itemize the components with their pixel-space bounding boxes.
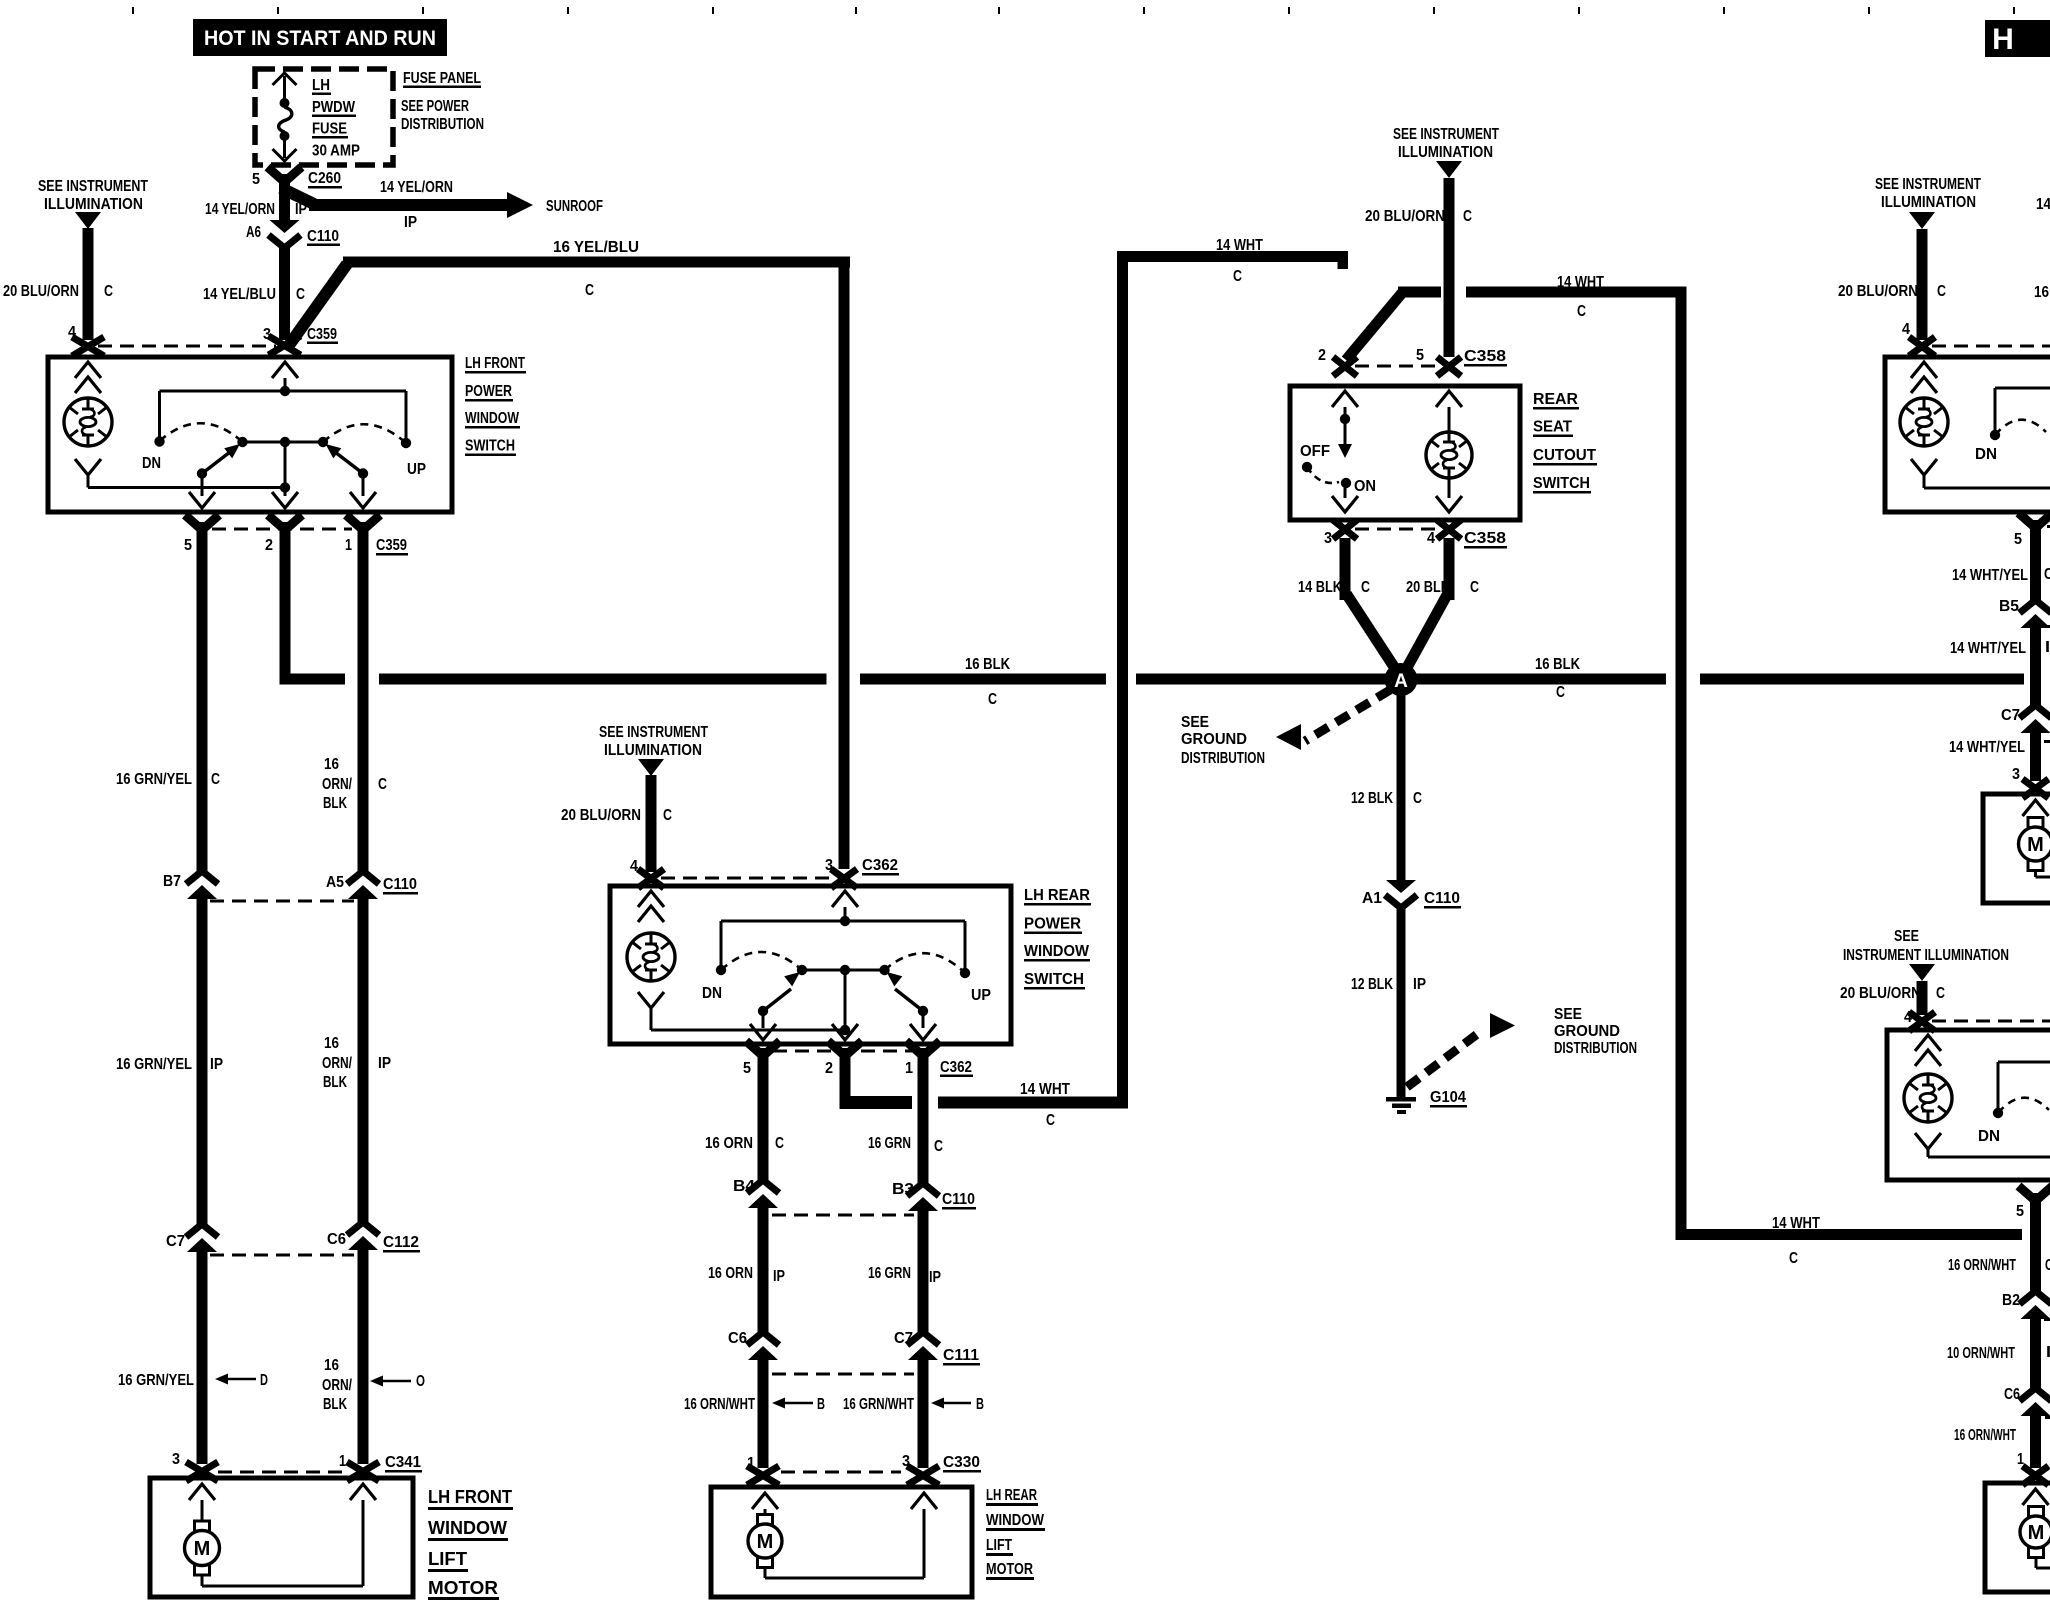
svg-text:14 WHT: 14 WHT bbox=[1216, 237, 1263, 254]
svg-text:C: C bbox=[775, 1135, 784, 1152]
svg-text:C: C bbox=[934, 1138, 943, 1155]
svg-text:C358: C358 bbox=[1464, 348, 1506, 365]
connector C341 pin 1 bbox=[339, 1453, 422, 1481]
label 16 ORN/BLK C (stacked) bbox=[322, 756, 387, 812]
label 16 ORN/BLK IP (stacked) bbox=[322, 1035, 391, 1091]
svg-text:C330: C330 bbox=[943, 1454, 980, 1471]
label 16 GRN/YEL IP bbox=[116, 1056, 223, 1073]
svg-text:C: C bbox=[296, 286, 305, 303]
svg-text:16 GRN/WHT: 16 GRN/WHT bbox=[843, 1396, 914, 1413]
switch arm left (LH rear) bbox=[763, 972, 800, 1011]
svg-text:LH REAR: LH REAR bbox=[1024, 887, 1090, 904]
svg-text:5: 5 bbox=[743, 1060, 751, 1077]
label 16 BLK C (right) bbox=[1535, 656, 1581, 701]
svg-text:SEE INSTRUMENT: SEE INSTRUMENT bbox=[38, 178, 148, 195]
label 16 ORN/WHT C (RH rear) bbox=[1948, 1257, 2050, 1274]
label 12 BLK C bbox=[1351, 790, 1422, 807]
svg-text:O: O bbox=[416, 1373, 425, 1390]
motor M (LH front window lift) bbox=[185, 1484, 377, 1586]
wire 14 WHT/YEL (C7 to pin3) bbox=[2030, 733, 2041, 781]
svg-text:C: C bbox=[2044, 566, 2050, 583]
svg-text:ORN/: ORN/ bbox=[322, 1377, 353, 1394]
svg-text:14 YEL/BLU: 14 YEL/BLU bbox=[203, 286, 276, 303]
label SEE GROUND DISTRIBUTION (lower) bbox=[1554, 1006, 1637, 1057]
svg-text:DN: DN bbox=[1975, 446, 1997, 463]
connector C330 pin 1 bbox=[747, 1455, 779, 1485]
wire lamp to pin 2 (LH rear) bbox=[651, 1025, 850, 1035]
svg-text:D: D bbox=[260, 1372, 268, 1389]
label 14 WHT C (upper left) bbox=[1216, 237, 1263, 285]
svg-text:B2: B2 bbox=[2002, 1292, 2020, 1309]
svg-text:DISTRIBUTION: DISTRIBUTION bbox=[401, 116, 484, 133]
svg-text:14 WHT: 14 WHT bbox=[1772, 1215, 1820, 1232]
svg-text:C6: C6 bbox=[2004, 1386, 2020, 1403]
connector C260 bbox=[268, 167, 343, 199]
title box HOT IN START AND RUN bbox=[193, 19, 447, 56]
label SEE GROUND DISTRIBUTION (upper) bbox=[1181, 714, 1265, 767]
RH rear window lift motor box bbox=[1985, 1483, 2050, 1592]
svg-text:16 GRN: 16 GRN bbox=[868, 1135, 911, 1152]
wire lamp line (RH rear) bbox=[1928, 1156, 2050, 1159]
label 12 BLK IP bbox=[1351, 976, 1426, 993]
svg-text:C110: C110 bbox=[307, 228, 339, 245]
label SEE INSTRUMENT ILLUMINATION (RH rear) bbox=[1843, 928, 2009, 964]
svg-text:LIFT: LIFT bbox=[986, 1537, 1012, 1554]
contact DN (RH front) bbox=[1975, 430, 2000, 463]
dashed arc DN (RH rear) bbox=[1998, 1098, 2049, 1113]
connector pin 3 (RH front motor) bbox=[2012, 766, 2049, 798]
svg-text:SEAT: SEAT bbox=[1533, 419, 1573, 436]
wire 16 GRN/WHT (C7 to motor) bbox=[918, 1360, 929, 1468]
svg-text:C359: C359 bbox=[307, 326, 337, 343]
svg-text:12 BLK: 12 BLK bbox=[1351, 790, 1394, 807]
switch arm left (LH front) bbox=[202, 444, 240, 474]
label 14 WHT/YEL C (RH upper) bbox=[1952, 566, 2050, 584]
label 20 BLU/ORN C (LH front) bbox=[3, 283, 113, 300]
illumination feed triangle (LH rear) bbox=[638, 759, 664, 776]
svg-text:SEE: SEE bbox=[1554, 1006, 1582, 1023]
svg-text:C6: C6 bbox=[728, 1330, 747, 1347]
rear seat cutout switch box bbox=[1290, 386, 1520, 520]
svg-text:BLK: BLK bbox=[323, 795, 348, 812]
svg-text:20 BLU/ORN: 20 BLU/ORN bbox=[1838, 283, 1918, 300]
svg-text:C: C bbox=[104, 283, 113, 300]
wire pin2 exit (LH front) bbox=[272, 442, 298, 508]
illumination feed triangle (cutout) bbox=[1436, 161, 1462, 178]
svg-text:IP: IP bbox=[378, 1055, 391, 1072]
label 16 ORN/BLK arrow O bbox=[322, 1357, 425, 1413]
svg-text:C: C bbox=[211, 771, 220, 788]
svg-text:ON: ON bbox=[1354, 478, 1376, 495]
label 14 WHT/YEL IP (RH) bbox=[1950, 639, 2050, 657]
wire 16 GRN/YEL (pin5 to B7) bbox=[197, 553, 208, 871]
svg-text:5: 5 bbox=[1416, 347, 1424, 364]
svg-text:FUSE: FUSE bbox=[312, 121, 347, 138]
connector C359 pin 2 (bottom) bbox=[265, 515, 302, 561]
connector pin 5 (RH rear bottom) bbox=[2016, 1186, 2050, 1232]
svg-text:16 ORN/WHT: 16 ORN/WHT bbox=[684, 1396, 755, 1413]
wire 16 GRN (pin1 to B3) bbox=[918, 1075, 929, 1183]
svg-text:SWITCH: SWITCH bbox=[1533, 475, 1590, 492]
wire 14 BLK (pin3 to node A) bbox=[1340, 538, 1399, 673]
dashed connector line C359 (bottom) bbox=[212, 528, 352, 531]
svg-text:C: C bbox=[1413, 790, 1422, 807]
wire pin2 to 16 BLK bbox=[280, 553, 291, 685]
svg-text:B: B bbox=[976, 1396, 984, 1413]
wire 16 ORN/BLK (pin1 to A5) bbox=[358, 553, 369, 871]
svg-text:LIFT: LIFT bbox=[428, 1548, 468, 1569]
dashed connector line (RH rear top) bbox=[1932, 1020, 2050, 1023]
label 14 BLK C bbox=[1298, 579, 1370, 596]
svg-text:H: H bbox=[1992, 23, 2014, 56]
svg-text:BLK: BLK bbox=[323, 1396, 348, 1413]
wire 16 GRN (B3 to C7) bbox=[918, 1211, 929, 1332]
connector C362 pin 5 (bottom) bbox=[743, 1041, 780, 1084]
wire pin5 exit (LH rear) bbox=[750, 1011, 776, 1040]
svg-text:14 WHT: 14 WHT bbox=[1557, 274, 1604, 291]
label SEE INSTRUMENT ILLUMINATION (RH front) bbox=[1875, 176, 1981, 211]
svg-text:C362: C362 bbox=[940, 1059, 972, 1076]
svg-text:C: C bbox=[1470, 579, 1479, 596]
dashed arc DN (LH front) bbox=[160, 423, 243, 442]
label SEE INSTRUMENT ILLUMINATION (LH front) bbox=[38, 178, 148, 213]
wire pin2 exit (LH rear) bbox=[832, 970, 858, 1040]
label 14 YEL/ORN IP (left of wire) bbox=[205, 201, 307, 218]
connector pin 1 (RH rear motor) bbox=[2017, 1451, 2049, 1485]
connector C359 pin 5 (bottom) bbox=[184, 515, 219, 561]
svg-text:A6: A6 bbox=[246, 224, 261, 241]
connector C358 pin 5 bbox=[1416, 347, 1507, 376]
svg-text:M: M bbox=[2028, 1522, 2045, 1544]
svg-text:GROUND: GROUND bbox=[1181, 731, 1247, 748]
svg-text:IP: IP bbox=[773, 1268, 785, 1285]
label SEE POWER DISTRIBUTION bbox=[401, 98, 484, 133]
wire pin3 exit (cutout) bbox=[1332, 487, 1358, 512]
svg-text:C112: C112 bbox=[383, 1234, 419, 1251]
svg-text:HOT IN START AND RUN: HOT IN START AND RUN bbox=[204, 27, 436, 50]
dashed arc DN (RH front) bbox=[1995, 420, 2046, 435]
svg-text:IP: IP bbox=[404, 214, 417, 231]
wire 20 BLU/ORN (LH rear illumination) bbox=[646, 775, 657, 872]
connector pin 4 (RH rear) bbox=[1904, 1009, 1935, 1031]
svg-text:IP: IP bbox=[929, 1269, 941, 1286]
RH front window lift motor box bbox=[1983, 794, 2050, 903]
wire 20 BLU/ORN (LH front illumination) bbox=[83, 228, 94, 340]
svg-text:BLK: BLK bbox=[323, 1074, 348, 1091]
wire 16 ORN (pin5 to B4) bbox=[758, 1075, 769, 1180]
svg-text:16: 16 bbox=[2034, 284, 2049, 301]
svg-text:DN: DN bbox=[142, 455, 161, 472]
wire 14 WHT (cutout to RH rear) bbox=[1466, 287, 2022, 1241]
svg-text:C: C bbox=[1577, 303, 1586, 320]
svg-text:C6: C6 bbox=[327, 1231, 346, 1248]
svg-text:5: 5 bbox=[252, 171, 260, 188]
node A (splice) bbox=[1385, 663, 1418, 696]
svg-text:5: 5 bbox=[2016, 1203, 2024, 1220]
dashed pointer SEE GROUND DISTRIBUTION (upper) bbox=[1276, 690, 1390, 750]
connector pin 4 (RH front) bbox=[1902, 321, 1935, 356]
wire pin1 exit (LH rear) bbox=[910, 1011, 936, 1040]
wire 14 YEL/BLU (C110 to C359) bbox=[279, 244, 290, 340]
svg-text:16 GRN/YEL: 16 GRN/YEL bbox=[116, 771, 192, 788]
svg-text:C: C bbox=[2045, 1257, 2050, 1274]
contact DN (LH front) bbox=[142, 436, 165, 472]
svg-text:A5: A5 bbox=[326, 874, 344, 891]
label 16 GRN/YEL arrow D bbox=[118, 1372, 268, 1389]
svg-text:DN: DN bbox=[702, 985, 722, 1002]
svg-text:C: C bbox=[1361, 579, 1370, 596]
wire 16 GRN/YEL (B7 to C7) bbox=[197, 899, 208, 1224]
wire pin1 exit (LH front) bbox=[350, 474, 376, 509]
label 16 GRN C bbox=[868, 1135, 943, 1155]
svg-text:16: 16 bbox=[324, 756, 339, 773]
svg-text:16 GRN: 16 GRN bbox=[868, 1265, 911, 1282]
LH front window lift motor box bbox=[150, 1478, 413, 1597]
LH rear window lift motor box bbox=[711, 1487, 972, 1597]
svg-text:M: M bbox=[194, 1538, 211, 1560]
svg-text:20 BLU/ORN: 20 BLU/ORN bbox=[1365, 208, 1445, 225]
svg-text:20 BLK: 20 BLK bbox=[1406, 579, 1451, 596]
lamp (LH front switch illumination) bbox=[64, 362, 112, 488]
svg-text:16 YEL/BLU: 16 YEL/BLU bbox=[553, 239, 639, 256]
contact row (LH front) bbox=[237, 437, 328, 447]
svg-text:SWITCH: SWITCH bbox=[1024, 971, 1084, 988]
svg-text:ORN/: ORN/ bbox=[322, 1055, 353, 1072]
connector C111 pin C7 bbox=[894, 1330, 980, 1366]
dashed arc UP (LH rear) bbox=[885, 953, 966, 973]
svg-text:C110: C110 bbox=[383, 876, 417, 893]
svg-text:2: 2 bbox=[265, 537, 273, 554]
svg-text:ORN/: ORN/ bbox=[322, 776, 353, 793]
svg-text:IP: IP bbox=[210, 1056, 223, 1073]
svg-text:A: A bbox=[1394, 671, 1408, 692]
svg-text:MOTOR: MOTOR bbox=[428, 1577, 498, 1598]
svg-text:10 ORN/WHT: 10 ORN/WHT bbox=[1947, 1345, 2015, 1362]
motor M (RH rear window lift) bbox=[2020, 1489, 2050, 1568]
connector C359 pin 3 bbox=[263, 326, 338, 355]
dashed arc UP (LH front) bbox=[323, 424, 406, 443]
svg-text:16 ORN: 16 ORN bbox=[708, 1265, 753, 1282]
connector C362 pin 2 (bottom) bbox=[825, 1041, 862, 1098]
svg-text:CUTOUT: CUTOUT bbox=[1533, 447, 1597, 464]
svg-text:3: 3 bbox=[2012, 766, 2020, 783]
contact UP (LH front) bbox=[401, 438, 426, 478]
svg-text:12 BLK: 12 BLK bbox=[1351, 976, 1394, 993]
svg-text:SEE: SEE bbox=[1181, 714, 1209, 731]
connector C358 pin 2 bbox=[1318, 347, 1357, 376]
label 16 BLK C (left) bbox=[965, 656, 1011, 708]
connector C362 pin 4 bbox=[630, 858, 664, 888]
svg-text:INSTRUMENT ILLUMINATION: INSTRUMENT ILLUMINATION bbox=[1843, 947, 2009, 964]
ground G104 bbox=[1386, 1089, 1467, 1114]
svg-text:4: 4 bbox=[1427, 530, 1435, 547]
fuse label PWDW bbox=[312, 99, 356, 117]
label 14 WHT C (upper right) bbox=[1557, 274, 1604, 320]
svg-text:ILLUMINATION: ILLUMINATION bbox=[1881, 194, 1976, 211]
svg-text:3: 3 bbox=[172, 1451, 180, 1468]
svg-text:C362: C362 bbox=[862, 857, 898, 874]
svg-text:A1: A1 bbox=[1362, 890, 1382, 907]
svg-text:C: C bbox=[1789, 1250, 1798, 1267]
wire 14 YEL/ORN branch to SUNROOF bbox=[281, 188, 533, 218]
switch arm right (LH front) bbox=[326, 444, 364, 474]
svg-text:SEE INSTRUMENT: SEE INSTRUMENT bbox=[599, 724, 708, 741]
svg-text:5: 5 bbox=[2014, 531, 2022, 548]
svg-text:1: 1 bbox=[345, 537, 352, 554]
wire 16 GRN/YEL (C7 to motor) bbox=[197, 1252, 208, 1464]
svg-text:LH FRONT: LH FRONT bbox=[465, 355, 525, 372]
svg-text:20 BLU/ORN: 20 BLU/ORN bbox=[3, 283, 79, 300]
svg-text:16 BLK: 16 BLK bbox=[1535, 656, 1581, 673]
RH rear power window switch box bbox=[1887, 1030, 2050, 1180]
wire 20 BLK (pin4 to node A) bbox=[1404, 538, 1455, 673]
svg-text:ILLUMINATION: ILLUMINATION bbox=[604, 742, 702, 759]
node pin3 entry (LH front) bbox=[272, 362, 298, 396]
connector C110 pin B3 bbox=[892, 1181, 976, 1211]
label SEE INSTRUMENT ILLUMINATION (cutout) bbox=[1393, 126, 1499, 161]
connector B2 bbox=[2002, 1291, 2050, 1321]
svg-text:SEE INSTRUMENT: SEE INSTRUMENT bbox=[1393, 126, 1499, 143]
wire 16 ORN (B4 to C6) bbox=[758, 1208, 769, 1332]
svg-text:ILLUMINATION: ILLUMINATION bbox=[44, 196, 143, 213]
wire 16 YEL/BLU (pin 3 to LH rear switch) bbox=[287, 257, 850, 870]
wire 14 WHT/YEL (B5 to C7) bbox=[2030, 628, 2041, 705]
label FUSE PANEL bbox=[403, 70, 481, 88]
label 20 BLU/ORN C (LH rear) bbox=[561, 807, 672, 824]
svg-text:2: 2 bbox=[1318, 347, 1326, 364]
svg-text:WINDOW: WINDOW bbox=[1024, 943, 1089, 960]
label 16 ORN/WHT arrow B bbox=[684, 1396, 825, 1413]
wire 12 BLK (C110 to G104) bbox=[1397, 904, 1406, 1097]
dashed connector line C110 (left) bbox=[210, 900, 354, 903]
wire 14 WHT (LH rear pin2 to cutout switch) bbox=[840, 251, 1349, 1109]
label 16 ORN C bbox=[705, 1135, 784, 1152]
connector C330 pin 3 bbox=[902, 1453, 981, 1485]
svg-text:30 AMP: 30 AMP bbox=[312, 143, 360, 160]
label LH REAR POWER WINDOW SWITCH bbox=[1024, 887, 1091, 990]
connector C358 pin 3 (bottom) bbox=[1324, 520, 1357, 547]
label LH FRONT WINDOW LIFT MOTOR bbox=[428, 1486, 513, 1600]
title box HOT (cut off) bbox=[1985, 20, 2050, 57]
label 14 WHT C (lower) bbox=[1020, 1081, 1070, 1129]
wire 20 BLU/ORN (RH rear illumination) bbox=[1917, 981, 1928, 1015]
svg-text:DN: DN bbox=[1978, 1128, 2000, 1145]
connector C110 pin A5 bbox=[326, 871, 418, 899]
svg-text:5: 5 bbox=[184, 537, 192, 554]
connector C7 (RH) bbox=[2001, 705, 2050, 743]
svg-text:C359: C359 bbox=[376, 537, 407, 554]
dashed arc DN (LH rear) bbox=[721, 952, 802, 970]
svg-text:16 BLK: 16 BLK bbox=[965, 656, 1011, 673]
connector C112 pin C6 bbox=[327, 1222, 420, 1253]
svg-text:SEE: SEE bbox=[1894, 928, 1919, 945]
svg-text:14 YEL/ORN: 14 YEL/ORN bbox=[205, 201, 275, 218]
svg-text:UP: UP bbox=[407, 461, 426, 478]
wire common bus (LH front) bbox=[160, 391, 407, 439]
svg-text:MOTOR: MOTOR bbox=[986, 1561, 1033, 1578]
svg-text:16 ORN/WHT: 16 ORN/WHT bbox=[1954, 1427, 2016, 1444]
label LH FRONT POWER WINDOW SWITCH bbox=[465, 355, 526, 456]
dashed connector line C358 (bottom) bbox=[1355, 528, 1440, 531]
label 16 GRN/WHT arrow B bbox=[843, 1396, 984, 1413]
connector B5 bbox=[1999, 598, 2050, 628]
connector pin 5 (RH front bottom) bbox=[2014, 513, 2050, 559]
svg-text:LH FRONT: LH FRONT bbox=[428, 1486, 513, 1507]
label 16 ORN IP bbox=[708, 1265, 785, 1285]
contact pivots (LH rear) bbox=[758, 1006, 928, 1016]
lamp (cutout switch) bbox=[1426, 391, 1472, 512]
svg-text:C7: C7 bbox=[894, 1330, 913, 1347]
wire common bus (RH front) bbox=[1995, 388, 2050, 431]
svg-text:C341: C341 bbox=[385, 1454, 421, 1471]
tick marks (page header) bbox=[132, 7, 134, 14]
contact ON bbox=[1341, 478, 1376, 495]
lamp (RH rear switch illumination) bbox=[1904, 1035, 1952, 1157]
svg-text:C7: C7 bbox=[166, 1233, 185, 1250]
svg-text:C260: C260 bbox=[308, 170, 341, 187]
connector C6 (RH rear) bbox=[2004, 1386, 2050, 1419]
svg-text:PWDW: PWDW bbox=[312, 99, 355, 116]
connector C359 pin 4 bbox=[68, 324, 104, 356]
LH front power window switch box bbox=[48, 357, 452, 512]
svg-text:C: C bbox=[663, 807, 672, 824]
label 16 GRN IP bbox=[868, 1265, 941, 1286]
contact pivots (LH front) bbox=[197, 468, 368, 478]
svg-text:WINDOW: WINDOW bbox=[986, 1512, 1044, 1529]
connector C110 pin B4 bbox=[733, 1178, 779, 1208]
svg-text:C: C bbox=[585, 282, 594, 299]
svg-text:FUSE PANEL: FUSE PANEL bbox=[403, 70, 481, 87]
dashed arc OFF-ON bbox=[1307, 467, 1339, 483]
wire 10 ORN/WHT (B2 to C6) bbox=[2030, 1319, 2041, 1388]
dashed connector line C358 (top) bbox=[1355, 365, 1440, 368]
svg-text:I: I bbox=[2045, 639, 2050, 656]
wire 16 ORN/WHT (C6 to pin1) bbox=[2030, 1416, 2041, 1468]
node pin3 entry (LH rear) bbox=[832, 891, 858, 926]
svg-text:DISTRIBUTION: DISTRIBUTION bbox=[1181, 750, 1265, 767]
fuse LH PWDW FUSE 30 AMP bbox=[273, 73, 297, 161]
svg-text:16: 16 bbox=[324, 1035, 339, 1052]
svg-text:C: C bbox=[988, 691, 997, 708]
fuse panel (dashed box) bbox=[255, 69, 393, 165]
svg-text:B7: B7 bbox=[163, 873, 181, 890]
illumination feed triangle (RH front) bbox=[1909, 212, 1935, 229]
dashed connector line C330 bbox=[781, 1471, 901, 1474]
wire 16 BLK (main ground run) bbox=[280, 674, 2025, 685]
illumination feed triangle (LH front) bbox=[75, 212, 101, 229]
svg-text:UP: UP bbox=[971, 987, 991, 1004]
wire lamp line (RH front) bbox=[1924, 487, 2050, 490]
dashed connector line C362 (bottom) bbox=[773, 1050, 913, 1053]
fuse label LH bbox=[312, 77, 331, 95]
svg-text:M: M bbox=[2027, 834, 2044, 856]
wire pin5 exit (LH front) bbox=[189, 474, 215, 509]
label SEE INSTRUMENT ILLUMINATION (LH rear) bbox=[599, 724, 708, 759]
contact UP (LH rear) bbox=[960, 968, 991, 1004]
dashed connector line C362 (top) bbox=[661, 877, 833, 880]
dashed connector line C359 (top) bbox=[98, 345, 276, 348]
motor M (LH rear window lift) bbox=[748, 1493, 937, 1578]
contact DN (RH rear) bbox=[1978, 1108, 2003, 1145]
label 20 BLU/ORN C (RH front) bbox=[1838, 283, 1946, 300]
svg-text:C110: C110 bbox=[942, 1191, 975, 1208]
svg-text:WINDOW: WINDOW bbox=[465, 410, 519, 427]
connector C359 pin 1 (bottom) bbox=[345, 515, 408, 561]
wire 16 ORN/WHT (pin5 to B2) bbox=[2030, 1222, 2041, 1291]
dashed connector line C112 bbox=[210, 1254, 354, 1257]
wire common bus (LH rear) bbox=[721, 921, 965, 968]
contact DN (LH rear) bbox=[702, 965, 726, 1002]
